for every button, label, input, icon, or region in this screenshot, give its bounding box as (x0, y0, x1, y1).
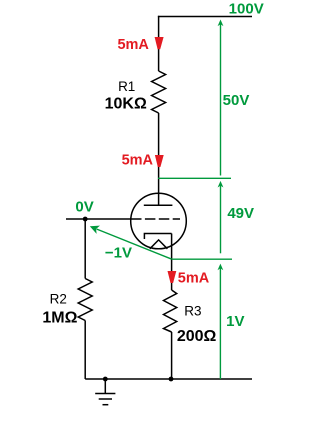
svg-text:5mA: 5mA (122, 152, 154, 168)
dimension arrow 50V (218, 20, 224, 176)
svg-text:49V: 49V (227, 205, 254, 222)
ground symbol (95, 379, 115, 405)
wire: R1 to tube plate (158, 113, 160, 205)
current arrow 5mA (top) (155, 37, 164, 49)
tube plate bar (144, 204, 173, 206)
resistor R3 (164, 290, 177, 332)
wire: R3 to bottom rail (171, 332, 173, 379)
wire: grid to 0V node (66, 218, 131, 220)
svg-text:R2: R2 (50, 292, 67, 307)
wire: cathode lead down to R3 (171, 234, 173, 291)
svg-text:1MΩ: 1MΩ (42, 309, 77, 326)
measurement tick at plate level (158, 177, 231, 179)
svg-text:10KΩ: 10KΩ (105, 96, 147, 113)
tube heater V (150, 240, 168, 249)
wire: bottom rail (85, 378, 252, 380)
grid bias arrow -1V (cathode to grid) (90, 226, 172, 260)
svg-text:5mA: 5mA (117, 37, 149, 53)
tube cathode bar (144, 234, 171, 240)
wire: rail down to R1 (158, 16, 160, 71)
dimension arrow 49V (218, 181, 224, 253)
wire: top supply rail (158, 16, 252, 18)
junction dot: ground node (103, 377, 108, 382)
svg-text:200Ω: 200Ω (177, 328, 217, 345)
resistor R2 (78, 279, 92, 321)
resistor R1 (152, 71, 166, 113)
tube grid (dashed) (131, 218, 180, 220)
measurement tick at cathode level (172, 258, 232, 260)
svg-text:50V: 50V (223, 92, 250, 109)
junction dot: grid / R2 node (83, 217, 88, 222)
svg-text:5mA: 5mA (178, 271, 210, 287)
svg-text:0V: 0V (75, 198, 93, 215)
svg-text:100V: 100V (229, 0, 264, 17)
svg-text:1V: 1V (226, 313, 244, 330)
current arrow 5mA (plate) (155, 155, 164, 167)
svg-text:−1V: −1V (105, 244, 132, 261)
wire: R2 lower lead (84, 321, 86, 380)
wire: R2 upper lead (84, 219, 86, 279)
tube V1 envelope (131, 193, 187, 249)
dimension arrow 1V (218, 264, 224, 379)
current arrow 5mA (cathode) (168, 271, 177, 283)
svg-text:R3: R3 (184, 304, 201, 319)
junction dot: R3 / bottom rail (169, 377, 174, 382)
svg-text:R1: R1 (118, 79, 135, 94)
